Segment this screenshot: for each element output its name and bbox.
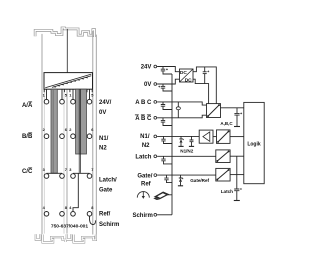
terminal Anot Bnot Cnot [154,116,157,119]
contact 5b row1 [87,99,92,104]
contact 1 row1 [44,99,49,104]
wire comparator to optocoupler U4 [213,136,217,138]
svg-text:Gate: Gate [99,188,113,194]
optocoupler U5 Latch [216,150,230,163]
DC/DC converter U1 [180,69,194,83]
svg-text:0V: 0V [144,82,151,88]
svg-text:Ref: Ref [141,182,152,188]
contact 8 row4 [60,212,65,217]
svg-text:DC: DC [180,70,187,76]
wire Anot Bnot Cnot to optocoupler [157,115,206,118]
contact 7b row3 [87,174,92,179]
svg-text:2: 2 [69,127,72,132]
schematic terminal circles [154,65,157,216]
comparator U3 [199,130,213,143]
gnd bar Latch [234,200,240,202]
wire Latch to optocoupler U5 [157,155,216,157]
module housing top profile [35,28,95,37]
contact 4 row4 [44,212,49,217]
module center divider (light, below marking box) [66,89,68,233]
contact 8b row4 [87,212,92,217]
wire 24V to DC/DC [157,67,179,72]
terminal 24V [154,65,157,68]
zener D2 triangle [179,178,182,181]
right pair T-link to row3 contacts [73,172,90,174]
svg-text:A/A: A/A [22,103,33,109]
left bar T-link to row3 contacts [47,172,63,174]
clamp channel lines [44,89,64,233]
current bar left (hatched) [51,89,57,173]
svg-text:24V/: 24V/ [99,100,112,106]
zener D1 triangle [180,139,183,142]
module housing right wall (double) [93,31,97,235]
Logik block [244,102,264,183]
svg-text:A B C: A B C [135,100,152,106]
gnd bar A,B,C [234,126,240,128]
shield curl below contact 8 [89,216,95,224]
module right labels [99,100,119,228]
module housing left wall [41,34,43,234]
svg-text:3: 3 [69,167,72,172]
svg-text:N1/N2: N1/N2 [180,149,193,154]
schematic terminal labels [132,65,152,219]
capacitor C8 N1/N2 [190,136,194,146]
svg-text:750-637/040-001: 750-637/040-001 [51,224,89,230]
optocoupler U2 A,B,C [207,104,221,118]
terminal Gate/Ref [154,174,157,177]
svg-text:N2: N2 [142,143,150,149]
clamp circles (contacts) [44,99,92,216]
module housing bottom profile [36,234,96,242]
svg-text:6: 6 [91,127,94,132]
right thin wire pair [79,89,80,173]
svg-text:Logik: Logik [247,141,261,147]
svg-text:C/C: C/C [22,169,33,175]
capacitor C3 supply [204,67,206,72]
svg-text:0V: 0V [99,110,106,116]
wire from row3 down to contact 4 (Ref) [73,173,78,211]
svg-text:1: 1 [69,93,72,98]
capacitor C10 Gate/Ref filter [164,175,172,183]
zener diode D2 Gate/Ref [180,175,182,178]
clamp slot ticks under marking box [44,89,92,92]
svg-text:A B C: A B C [135,116,152,122]
contact 2 row2 [44,134,49,139]
capacitor C2 0V filter [162,84,164,86]
svg-text:1: 1 [43,93,46,98]
latch gnd branch [234,156,239,200]
terminal N1/N2 [154,135,157,138]
wire U5 output to Logik [230,155,244,157]
svg-text:Gate/Ref: Gate/Ref [190,178,209,183]
svg-text:B/B: B/B [22,134,33,140]
wire Schirm to bus [157,214,172,216]
wire DC/DC +5V rail [193,67,216,104]
svg-text:24V: 24V [141,65,152,71]
input load lamp between A and Anot [177,102,179,118]
contact 6 row2 [60,134,65,139]
shield clamp icon [153,192,172,201]
svg-text:N1/: N1/ [140,134,150,140]
pin numbers [43,93,95,210]
svg-text:7: 7 [91,167,93,172]
contact 3 row3 [44,174,49,179]
optocoupler U4 N1/N2 [217,130,231,144]
svg-text:A,B,C: A,B,C [220,121,233,126]
terminal Latch [154,155,157,158]
capacitor C9 Latch filter [161,156,172,164]
svg-text:5: 5 [91,93,94,98]
capacitor C4 ABC filter [161,102,172,110]
wire A B C to optocoupler [157,102,206,105]
capacitor C7 N filter [161,136,172,143]
functional earth symbol (arc with arrow) [137,192,149,198]
plus mark C1 [166,68,168,70]
terminal 0V [154,83,157,86]
capacitor C5 ABCnot filter [161,118,172,126]
clamp stubs row 1 [47,89,90,99]
svg-text:N2: N2 [99,145,107,151]
contact 5 row1 [60,99,65,104]
capacitor C6 to system gnd [234,108,239,126]
svg-text:2: 2 [43,127,46,132]
plus mark C3 [207,71,209,73]
wire N1/N2 to comparator [157,135,199,137]
svg-text:7: 7 [65,167,67,172]
svg-text:Latch: Latch [135,155,151,161]
wire Gate/Ref to optocoupler U6 [157,174,216,176]
svg-text:4: 4 [69,205,72,210]
marking box [44,73,93,90]
terminal Schirm [154,213,157,216]
plus mark latch gnd [240,188,242,190]
terminal A B C [154,101,157,104]
contact 6b row2 [87,134,92,139]
svg-text:Schirm: Schirm [132,213,152,219]
svg-text:8: 8 [91,205,94,210]
contact 4b row4 [71,212,76,217]
wire U6 output to Logik [230,174,244,176]
load ellipse [176,107,180,110]
marking box diagonal stripe [45,74,91,88]
plus mark C2 [158,86,160,88]
optocoupler U6 Gate/Ref [216,168,230,181]
contact 7 row3 [60,174,65,179]
wire U2 output to Logik [221,107,244,109]
svg-text:Latch: Latch [221,189,233,194]
current bar right (hatched) [76,89,87,154]
wire U4 output to Logik [230,136,244,138]
svg-text:Schirm: Schirm [99,222,119,228]
svg-text:Ref/: Ref/ [99,212,111,218]
svg-text:4: 4 [43,205,46,210]
contact 3b row3 [71,174,76,179]
shield bus vertical [171,74,173,215]
plus mark C6 [240,113,242,115]
contact 2b row2 [71,134,76,139]
wire DC/DC gnd rail [193,79,209,103]
zener diode D1 N1/N2 [180,136,182,138]
capacitor C1 24V filter [162,67,164,70]
svg-text:Gate/: Gate/ [137,173,152,179]
svg-text:DC: DC [185,77,192,83]
wire 0V to DC/DC [157,79,179,84]
svg-text:Latch/: Latch/ [99,178,117,184]
svg-text:N1/: N1/ [99,136,109,142]
svg-text:3: 3 [43,167,46,172]
contact 1b row1 [71,99,76,104]
module center divider (dark, above marking box) [66,29,68,73]
